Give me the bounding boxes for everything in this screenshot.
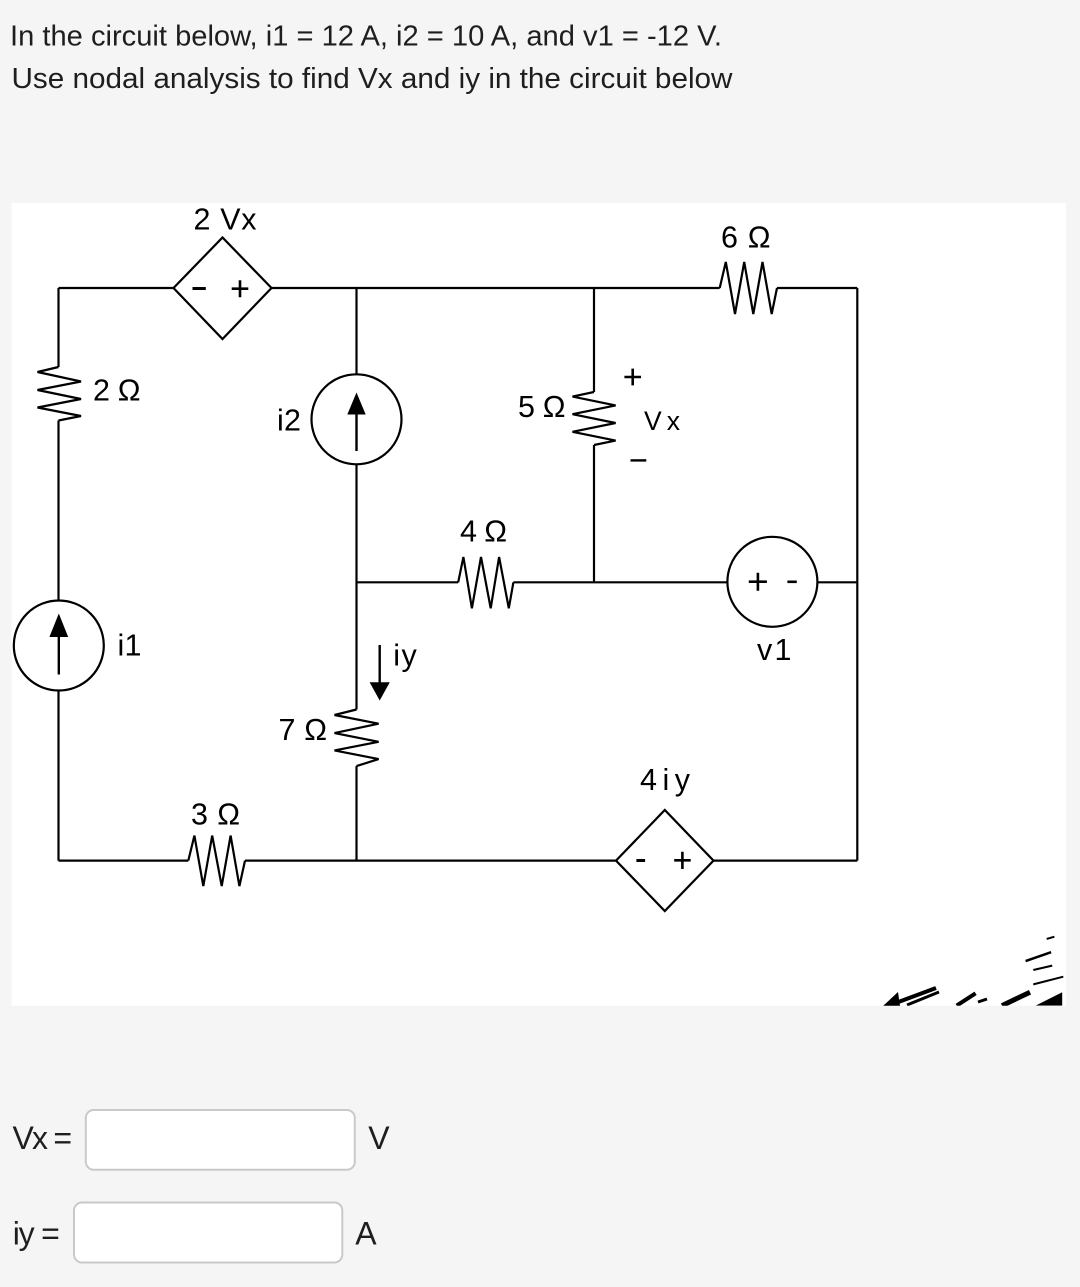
svg-text:V: V <box>368 1120 390 1156</box>
svg-text:3 Ω: 3 Ω <box>191 798 240 832</box>
v1 polarity plus <box>749 573 767 591</box>
wire right vertical <box>856 288 858 861</box>
svg-text:Use nodal analysis to find Vx: Use nodal analysis to find Vx and iy in … <box>12 63 734 95</box>
answer input box iy <box>74 1203 342 1263</box>
wire middle horizontal right <box>513 581 727 583</box>
iy current arrow <box>370 645 390 701</box>
v1 polarity minus <box>787 580 796 583</box>
svg-text:4iy: 4iy <box>640 763 691 797</box>
wire 5Ω branch lower <box>593 445 595 582</box>
wire i2 to middle node <box>355 464 357 709</box>
wire top-right segment <box>777 287 857 289</box>
4iy polarity plus <box>674 852 691 869</box>
wire 7Ω to bottom wire <box>355 766 357 861</box>
svg-text:2 Vx: 2 Vx <box>194 203 257 237</box>
svg-text:7 Ω: 7 Ω <box>279 713 328 747</box>
wire left vertical upper <box>57 288 59 367</box>
2Vx polarity plus <box>232 280 249 297</box>
svg-text:A: A <box>355 1216 377 1252</box>
resistor 4Ω (zigzag) <box>458 557 513 608</box>
wire left vertical middle <box>57 421 59 601</box>
dependent source 4iy (diamond) <box>616 810 714 911</box>
wire top middle (2Vx to top-right corner) <box>272 287 720 289</box>
2Vx polarity minus <box>193 287 206 290</box>
svg-text:iy =: iy = <box>13 1216 60 1252</box>
wire bottom-left horizontal <box>59 859 189 861</box>
Vx polarity minus <box>631 459 647 461</box>
resistor 2Ω (zigzag) <box>38 367 82 421</box>
wire top-left horizontal (node A to 2Vx source) <box>59 287 174 289</box>
wire middle horizontal left <box>357 581 459 583</box>
resistor 6Ω (zigzag) <box>720 262 777 314</box>
i1 arrow <box>49 614 68 675</box>
svg-text:2 Ω: 2 Ω <box>93 374 141 408</box>
svg-text:Vx =: Vx = <box>13 1120 73 1156</box>
Vx polarity plus <box>624 369 641 386</box>
wire mid vertical from top to i2 <box>355 288 357 375</box>
svg-text:6 Ω: 6 Ω <box>721 221 771 255</box>
svg-text:5 Ω: 5 Ω <box>518 390 566 424</box>
scribble marks bottom right <box>883 937 1063 1006</box>
wire 5Ω branch upper <box>593 288 595 392</box>
voltage source v1 (circle) <box>727 537 817 627</box>
svg-text:i2: i2 <box>277 404 301 438</box>
svg-text:v1: v1 <box>757 633 792 667</box>
resistor 5Ω (zigzag) <box>573 392 616 445</box>
current source i2 (circle) <box>312 374 402 464</box>
svg-text:iy: iy <box>393 639 417 673</box>
answer input box Vx <box>86 1110 355 1170</box>
resistor 3Ω (zigzag) <box>188 836 245 887</box>
svg-text:In the circuit below, i1 = 12: In the circuit below, i1 = 12 A, i2 = 10… <box>10 21 722 53</box>
wire v1 to right rail <box>817 581 857 583</box>
4iy polarity minus <box>636 859 645 862</box>
wire left vertical lower <box>57 691 59 861</box>
svg-text:4 Ω: 4 Ω <box>460 515 507 549</box>
resistor 7Ω (zigzag) <box>335 710 379 767</box>
svg-text:i1: i1 <box>118 629 142 663</box>
wire bottom-right horizontal <box>714 859 858 861</box>
current source i1 (circle) <box>14 601 104 691</box>
dependent voltage source 2Vx (diamond) <box>174 238 272 340</box>
i2 arrow <box>347 393 365 452</box>
wire bottom middle horizontal <box>245 859 616 861</box>
